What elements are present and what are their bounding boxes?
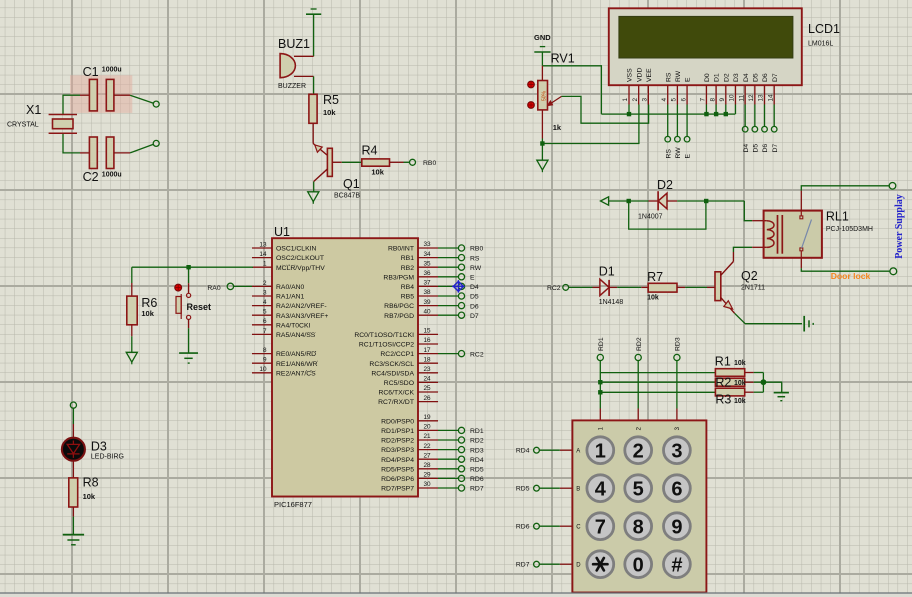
svg-text:27: 27	[424, 452, 432, 459]
wire U1 pin 39 to terminal D6	[438, 305, 458, 307]
terminal RW	[458, 264, 464, 270]
wire R6 to ground	[131, 325, 133, 337]
svg-text:10: 10	[729, 94, 736, 102]
wire bypass loop under D2	[629, 201, 706, 229]
svg-text:1000u: 1000u	[102, 172, 122, 179]
terminal D7	[458, 312, 464, 318]
svg-text:U1: U1	[274, 225, 290, 239]
wire R1-R3 common vertical	[762, 373, 764, 393]
U1 pin 27 (RD4/PSP4)	[381, 452, 438, 463]
wire VSS drop	[628, 105, 630, 115]
svg-text:RW: RW	[675, 70, 682, 82]
svg-text:C2: C2	[83, 170, 99, 184]
keypad button #	[664, 551, 691, 578]
LCD1 pin 14 (D7)	[767, 73, 778, 104]
svg-text:RD1: RD1	[598, 337, 605, 351]
wire U1 pin 33 to terminal RB0	[438, 247, 458, 249]
svg-text:RD2: RD2	[636, 337, 643, 351]
LCD1 pin 10 (D3)	[729, 73, 740, 104]
LCD1 pin 7 (D0)	[700, 73, 711, 104]
svg-text:C1: C1	[83, 65, 99, 79]
svg-text:LCD1: LCD1	[808, 22, 840, 36]
terminal RS	[458, 255, 464, 261]
svg-text:RB5: RB5	[401, 294, 414, 301]
svg-text:RC5/SDO: RC5/SDO	[384, 380, 414, 387]
wire C1 to terminal	[130, 95, 153, 103]
terminal D4	[742, 126, 748, 132]
svg-text:3: 3	[671, 440, 682, 462]
svg-text:RB2: RB2	[401, 265, 414, 272]
U1 pin 37 (RB4)	[401, 280, 438, 291]
terminal RD2	[458, 437, 464, 443]
svg-text:0: 0	[633, 554, 644, 576]
svg-text:7: 7	[595, 516, 606, 538]
svg-text:D4: D4	[743, 144, 750, 153]
svg-text:RB7/PGD: RB7/PGD	[384, 313, 414, 320]
wire GND to RV1 and LCD VSS rail	[541, 52, 543, 66]
keypad button 2	[625, 437, 652, 464]
svg-text:RD1: RD1	[470, 428, 484, 435]
U1 pin 21 (RD2/PSP2)	[381, 433, 438, 444]
wire keypad row C	[560, 525, 573, 527]
red marker RV1 pin 2	[528, 102, 535, 109]
wire LCD D4 to terminal	[744, 105, 746, 127]
terminal RD5	[458, 466, 464, 472]
wire LCD E to terminal	[686, 105, 688, 137]
svg-text:4: 4	[595, 478, 607, 500]
wire D2 right to relay	[677, 200, 744, 202]
svg-text:RC2/CCP1: RC2/CCP1	[380, 351, 414, 358]
wire R5 to Q1 emitter	[312, 123, 314, 143]
svg-text:RS: RS	[665, 149, 672, 159]
node D1 junction	[714, 112, 718, 116]
wire D3 drop	[734, 105, 736, 115]
microcontroller U1 PIC16F877	[272, 225, 418, 509]
svg-text:38: 38	[424, 289, 432, 296]
svg-text:6: 6	[263, 318, 267, 325]
svg-text:10k: 10k	[371, 168, 384, 177]
U1 pin 33 (RB0/INT)	[388, 241, 438, 252]
wire RD1 column	[599, 361, 601, 409]
svg-text:D2: D2	[657, 178, 673, 192]
keypad button *	[587, 551, 614, 578]
LCD1 pin 8 (D1)	[709, 73, 720, 104]
U1 pin 24 (RC5/SDO)	[384, 376, 438, 387]
svg-text:BUZZER: BUZZER	[278, 83, 306, 90]
wire C2 to terminal	[130, 144, 153, 153]
svg-text:RD7: RD7	[470, 486, 484, 493]
wire R2 right	[745, 381, 754, 383]
svg-text:RD0/PSP0: RD0/PSP0	[381, 418, 414, 425]
svg-text:5: 5	[671, 98, 678, 102]
wire RC2 to D1	[569, 286, 593, 288]
svg-text:RB0/INT: RB0/INT	[388, 246, 414, 253]
power rail symbol above BUZ1	[306, 9, 321, 14]
wire relay NO contact to door lock terminal	[800, 258, 802, 269]
svg-text:D1: D1	[599, 264, 615, 278]
wire crystal-C2 left node	[63, 133, 80, 153]
U1 pin 38 (RB5)	[401, 289, 438, 300]
svg-text:29: 29	[424, 472, 432, 479]
wire LCD VSS/D0-D3 ground rail	[601, 113, 735, 115]
ground under RV1	[537, 160, 548, 170]
svg-text:B: B	[576, 486, 580, 492]
svg-text:VSS: VSS	[627, 68, 634, 82]
wire Q1 base to R4	[332, 161, 342, 163]
LCD1 pin 13 (D6)	[758, 73, 769, 104]
ground under Q1	[308, 192, 319, 202]
svg-text:R1: R1	[715, 355, 731, 369]
ground at Q2 emitter	[804, 316, 813, 332]
node RV1 bottom junction	[540, 141, 544, 145]
wire U1 pin 17 to terminal RC2	[438, 353, 458, 355]
svg-text:RD6: RD6	[470, 476, 484, 483]
svg-text:7: 7	[263, 328, 267, 335]
keypad button 3	[664, 437, 691, 464]
wire rail to buzzer	[313, 14, 315, 56]
keypad button 8	[625, 513, 652, 540]
wire crystal-C1 left node	[63, 95, 80, 114]
svg-text:24: 24	[424, 376, 432, 383]
svg-text:10k: 10k	[734, 360, 746, 367]
keypad button 6	[664, 475, 691, 502]
wire Reset to ground	[188, 320, 190, 329]
svg-text:4: 4	[263, 299, 267, 306]
wire U1 pin 22 to terminal RD3	[438, 449, 458, 451]
svg-text:RD6/PSP6: RD6/PSP6	[381, 476, 414, 483]
svg-text:D1: D1	[714, 73, 721, 82]
svg-text:33: 33	[424, 241, 432, 248]
U1 pin 30 (RD7/PSP7)	[381, 481, 438, 492]
input arrow terminal left of D2	[601, 197, 609, 205]
wire keypad row D	[560, 563, 573, 565]
wire LCD RS to terminal	[667, 105, 669, 137]
svg-text:26: 26	[424, 395, 432, 402]
svg-text:RD4: RD4	[470, 457, 484, 464]
svg-text:12: 12	[748, 94, 755, 102]
resistor R5	[309, 93, 339, 123]
terminal RD6 at keypad	[534, 523, 540, 529]
terminal D5	[458, 293, 464, 299]
ground under R8	[63, 534, 84, 536]
terminal D6	[458, 303, 464, 309]
terminal RD1	[458, 427, 464, 433]
svg-text:RL1: RL1	[826, 210, 849, 224]
resistor R7	[647, 270, 677, 302]
node junction R2 common	[761, 379, 767, 385]
svg-text:RC0/T1OSO/T1CKI: RC0/T1OSO/T1CKI	[354, 332, 414, 339]
svg-text:X1: X1	[26, 103, 41, 117]
svg-text:2: 2	[633, 440, 644, 462]
LCD display LCD1	[609, 8, 840, 85]
wire LCD D7 to terminal	[773, 105, 775, 127]
svg-text:RD3/PSP3: RD3/PSP3	[381, 447, 414, 454]
svg-text:1N4007: 1N4007	[638, 214, 663, 221]
svg-text:RD4/PSP4: RD4/PSP4	[381, 457, 414, 464]
U1 pin 7 (RA5/AN4/SS)	[252, 328, 316, 339]
svg-text:14: 14	[767, 94, 774, 102]
wire RA0 to U1 pin 2	[234, 285, 252, 287]
svg-text:A: A	[576, 448, 580, 454]
svg-text:16: 16	[424, 337, 432, 344]
U1 pin 10 (RE2/AN7/CS)	[252, 366, 316, 377]
push button Reset	[175, 284, 211, 319]
LCD1 pin 11 (D4)	[738, 73, 749, 104]
svg-text:Reset: Reset	[187, 302, 212, 312]
resistor R2	[715, 376, 745, 390]
svg-text:E: E	[470, 275, 475, 282]
wire arrow terminal to D2	[609, 200, 649, 202]
wire buzzer to R5	[313, 76, 315, 94]
svg-text:BC847B: BC847B	[334, 192, 360, 199]
svg-text:RW: RW	[470, 265, 482, 272]
svg-text:10k: 10k	[734, 380, 746, 387]
U1 pin 9 (RE1/AN6/WR)	[252, 357, 318, 368]
svg-text:D6: D6	[762, 73, 769, 82]
svg-text:4: 4	[661, 98, 668, 102]
terminal RD5 at keypad	[534, 485, 540, 491]
svg-text:1: 1	[263, 261, 267, 268]
terminal D7	[771, 126, 777, 132]
U1 pin 26 (RC7/RX/DT)	[378, 395, 438, 406]
svg-text:VDD: VDD	[636, 68, 643, 82]
svg-text:15: 15	[424, 328, 432, 335]
keypad button 7	[587, 513, 614, 540]
svg-text:14: 14	[259, 251, 267, 258]
LCD1 pin 2 (VDD)	[632, 68, 643, 105]
svg-text:D7: D7	[772, 144, 779, 153]
svg-text:GND: GND	[534, 33, 551, 42]
U1 pin 23 (RC4/SDI/SDA)	[371, 366, 438, 377]
svg-text:CRYSTAL: CRYSTAL	[7, 122, 39, 129]
terminal E	[458, 274, 464, 280]
node highlight around C1	[70, 75, 132, 113]
svg-text:RD3: RD3	[470, 447, 484, 454]
svg-text:8: 8	[263, 347, 267, 354]
svg-text:37: 37	[424, 280, 432, 287]
svg-text:23: 23	[424, 366, 432, 373]
svg-text:C: C	[576, 524, 581, 530]
wire RV1 bottom to LCD VDD	[542, 105, 639, 144]
wire C2 left stub	[80, 152, 89, 154]
svg-text:RD2: RD2	[470, 438, 484, 445]
U1 pin 2 (RA0/AN0)	[252, 280, 305, 291]
svg-text:R7: R7	[647, 270, 663, 284]
node D2 right junction	[704, 199, 708, 203]
svg-text:LED-BIRG: LED-BIRG	[91, 453, 124, 460]
U1 pin 13 (OSC1/CLKIN)	[252, 241, 317, 252]
wire RD2 column	[637, 361, 639, 409]
resistor R6	[127, 296, 158, 325]
svg-text:RA0/AN0: RA0/AN0	[276, 284, 305, 291]
terminal door lock bottom	[890, 268, 897, 275]
U1 pin 40 (RB7/PGD)	[384, 308, 438, 319]
svg-text:19: 19	[424, 414, 432, 421]
LCD1 pin 12 (D5)	[748, 73, 759, 104]
svg-text:RB0: RB0	[470, 246, 483, 253]
terminal RD3	[458, 447, 464, 453]
wire U1 pin 27 to terminal RD4	[438, 458, 458, 460]
svg-text:13: 13	[758, 94, 765, 102]
svg-text:RC7/RX/DT: RC7/RX/DT	[378, 399, 414, 406]
node D0 junction	[704, 112, 708, 116]
wire Q2 collector to relay coil	[732, 252, 734, 262]
wire U1 pin 28 to terminal RD5	[438, 468, 458, 470]
U1 pin 19 (RD0/PSP0)	[381, 414, 438, 425]
U1 pin 36 (RB3/PGM)	[383, 270, 438, 281]
svg-text:6: 6	[671, 478, 682, 500]
svg-text:RD3: RD3	[675, 337, 682, 351]
wire down to R6	[131, 267, 133, 283]
svg-text:RA1/AN1: RA1/AN1	[276, 294, 305, 301]
svg-text:RS: RS	[665, 72, 672, 82]
svg-text:D0: D0	[704, 73, 711, 82]
wire LCD D6 to terminal	[764, 105, 766, 127]
ground GND above RV1	[534, 33, 551, 52]
terminal RD3 above keypad	[674, 354, 680, 360]
svg-text:RC4/SDI/SDA: RC4/SDI/SDA	[371, 370, 414, 377]
wire D0 drop	[705, 105, 707, 115]
svg-text:10k: 10k	[323, 108, 336, 117]
svg-text:2N1711: 2N1711	[741, 284, 765, 291]
svg-text:D7: D7	[772, 73, 779, 82]
svg-text:10: 10	[259, 366, 267, 373]
svg-text:1: 1	[595, 440, 606, 462]
svg-text:E: E	[685, 154, 692, 159]
wire R3 right	[745, 391, 754, 393]
svg-text:13: 13	[259, 241, 267, 248]
LCD1 pin 3 (VEE)	[642, 68, 653, 105]
svg-text:3: 3	[642, 98, 649, 102]
resistor R4	[362, 144, 390, 177]
node junction col1-R2	[598, 380, 602, 384]
svg-text:50%: 50%	[541, 90, 547, 101]
svg-text:10k: 10k	[83, 492, 96, 501]
U1 pin 35 (RB2)	[401, 260, 438, 271]
wire U1 pin 40 to terminal D7	[438, 314, 458, 316]
svg-text:RD2/PSP2: RD2/PSP2	[381, 438, 414, 445]
diode D2 1N4007	[638, 178, 673, 221]
ground under R6	[126, 352, 137, 362]
wire R8 to ground	[72, 507, 74, 517]
wire R4 to RB0 terminal	[390, 161, 404, 163]
svg-text:10k: 10k	[141, 309, 154, 318]
terminal RD1 above keypad	[597, 354, 603, 360]
svg-text:40: 40	[424, 308, 432, 315]
wire Q1 collector down	[313, 182, 315, 192]
wire column stub into keypad	[637, 409, 639, 421]
wire C2 right stub	[114, 152, 130, 154]
U1 pin 5 (RA3/AN3/VREF+)	[252, 309, 328, 320]
wire RV1 bottom to ground	[541, 139, 543, 161]
svg-text:D6: D6	[762, 144, 769, 153]
svg-text:RA5/AN4/SS: RA5/AN4/SS	[276, 332, 316, 339]
svg-text:RB1: RB1	[401, 255, 414, 262]
svg-text:D2: D2	[723, 73, 730, 82]
svg-text:25: 25	[424, 385, 432, 392]
svg-text:RB0: RB0	[423, 160, 436, 167]
U1 pin 16 (RC1/T1OSI/CCP2)	[359, 337, 438, 348]
svg-text:28: 28	[424, 462, 432, 469]
svg-text:E: E	[685, 77, 692, 82]
svg-text:RE0/AN5/RD: RE0/AN5/RD	[276, 351, 316, 358]
svg-text:RD5: RD5	[516, 486, 530, 493]
terminal D4	[458, 283, 464, 289]
transistor Q2 2N1711	[715, 262, 765, 314]
svg-text:RE2/AN7/CS: RE2/AN7/CS	[276, 370, 316, 377]
svg-text:1N4148: 1N4148	[599, 299, 624, 306]
wire C1 right stub	[114, 94, 130, 96]
wire C1 left stub	[80, 94, 89, 96]
buzzer BUZ1	[278, 37, 314, 90]
svg-text:RC2: RC2	[470, 351, 484, 358]
svg-text:9: 9	[671, 516, 682, 538]
terminal RB0	[458, 245, 464, 251]
wire U1 pin 29 to terminal RD6	[438, 477, 458, 479]
keypad button 1	[587, 437, 614, 464]
wire keypad row A	[560, 449, 573, 451]
wire common to ground	[763, 382, 781, 392]
U1 pin 34 (RB1)	[401, 251, 438, 262]
svg-text:D3: D3	[733, 73, 740, 82]
svg-text:Door lock: Door lock	[831, 271, 871, 281]
svg-text:1: 1	[622, 98, 629, 102]
wire D2 right stub	[667, 200, 677, 202]
U1 pin 20 (RD1/PSP1)	[381, 424, 438, 435]
svg-text:Q1: Q1	[343, 177, 360, 191]
U1 pin 25 (RC6/TX/CK)	[378, 385, 438, 396]
wire RV1 wiper to LCD VEE	[562, 96, 649, 123]
svg-text:RB6/PGC: RB6/PGC	[384, 303, 414, 310]
svg-text:D4: D4	[743, 73, 750, 82]
svg-text:9: 9	[719, 98, 726, 102]
wire row to R2	[600, 381, 715, 383]
svg-text:RD6: RD6	[516, 524, 530, 531]
svg-text:R8: R8	[83, 476, 99, 490]
resistor R1	[715, 355, 746, 377]
svg-text:RE1/AN6/WR: RE1/AN6/WR	[276, 361, 318, 368]
transistor Q1	[313, 144, 360, 200]
svg-text:R4: R4	[362, 144, 378, 158]
svg-text:D5: D5	[752, 144, 759, 153]
node D2 junction	[724, 112, 728, 116]
svg-text:1000u: 1000u	[102, 67, 122, 74]
terminal RD4 at keypad	[534, 447, 540, 453]
svg-text:10k: 10k	[647, 295, 659, 302]
terminal RC2	[458, 351, 464, 357]
svg-text:5: 5	[263, 309, 267, 316]
relay RL1 PCJ-105D3MH	[764, 210, 873, 258]
svg-text:D3: D3	[91, 439, 107, 453]
svg-text:9: 9	[263, 357, 267, 364]
svg-text:#: #	[671, 554, 682, 576]
wire column stub into keypad	[599, 409, 601, 421]
svg-text:RD1/PSP1: RD1/PSP1	[381, 428, 414, 435]
wire Q2 emitter to ground	[735, 313, 802, 323]
wire D3 to R8	[72, 461, 74, 478]
keypad body	[572, 420, 706, 592]
svg-text:MCLR/Vpp/THV: MCLR/Vpp/THV	[276, 265, 325, 272]
svg-text:30: 30	[424, 481, 432, 488]
wire row to R1	[600, 372, 715, 374]
svg-text:LM016L: LM016L	[808, 41, 833, 48]
svg-text:2: 2	[632, 98, 639, 102]
terminal RD4	[458, 456, 464, 462]
svg-text:1k: 1k	[553, 123, 562, 132]
terminal RS	[665, 136, 671, 142]
svg-text:D5: D5	[752, 73, 759, 82]
wire D1 drop	[715, 105, 717, 115]
